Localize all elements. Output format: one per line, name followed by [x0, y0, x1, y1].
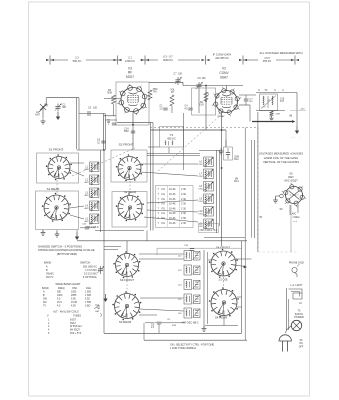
osc bank right rail — [216, 150, 218, 233]
svg-text:2 30: 2 30 — [181, 193, 186, 196]
svg-text:- - -: - - - — [269, 206, 273, 208]
svg-text:TUBES: TUBES — [73, 315, 81, 318]
svg-text:SPRAY: SPRAY — [217, 115, 225, 118]
power wires down — [286, 288, 288, 330]
gang linkage vertical — [257, 128, 259, 249]
svg-text:OSC: OSC — [198, 214, 203, 216]
svg-text:PHONE JACK: PHONE JACK — [289, 262, 305, 265]
svg-text:1 MEG: 1 MEG — [292, 217, 299, 219]
svg-text:DIAL: DIAL — [86, 287, 92, 290]
wires S3 to nb coils — [139, 253, 184, 255]
shield box top right segment — [204, 237, 245, 239]
wire S4F left — [208, 259, 212, 261]
ground left of V5 — [275, 198, 277, 201]
coil data table box — [156, 186, 194, 228]
bus wire AVC — [257, 112, 259, 252]
antenna ground — [42, 119, 44, 122]
gang shaft dashes S1 — [56, 180, 58, 194]
svg-text:10-46: 10-46 — [169, 198, 176, 201]
svg-text:OSC: OSC — [72, 287, 77, 290]
svg-text:2 30: 2 30 — [181, 188, 186, 191]
svg-text:FG: FG — [162, 207, 166, 210]
switch S3 FRONT wafer — [116, 254, 139, 277]
ground under S1 REAR — [42, 230, 44, 233]
svg-text:POWER: POWER — [294, 316, 304, 319]
wires into S3 from left — [104, 246, 121, 248]
svg-text:455 KC: 455 KC — [167, 137, 176, 141]
switch S2 FRONT wafer — [118, 157, 141, 180]
svg-text:S3 REAR: S3 REAR — [119, 320, 131, 324]
wire V3 bottom left — [104, 115, 116, 117]
wire V2 grid bus — [205, 85, 207, 130]
svg-text:FG: FG — [162, 193, 166, 196]
svg-text:FG: FG — [162, 217, 166, 220]
osc coil bank label — [199, 224, 219, 233]
svg-text:VOLTAGES MEASURED +CHASSIS: VOLTAGES MEASURED +CHASSIS — [259, 152, 303, 156]
svg-text:(BOTTOM VIEW): (BOTTOM VIEW) — [57, 252, 77, 256]
switch S2 REAR wafer — [118, 196, 142, 220]
transformer T2 can — [160, 127, 184, 148]
wire lamp to plug — [286, 326, 292, 334]
ground arrow right of T1 — [296, 126, 298, 131]
svg-text:10-46: 10-46 — [169, 217, 176, 220]
gang linkage diagonal a — [72, 148, 135, 176]
capacitor C13 right of V2 — [244, 98, 248, 100]
V5 grid cap pin — [280, 194, 284, 198]
wire top rail between tubes — [149, 81, 183, 83]
svg-text:S2 REAR: S2 REAR — [124, 190, 136, 194]
svg-text:440 455 KC: 440 455 KC — [215, 56, 229, 60]
tube V5 6SQ7 — [286, 187, 303, 204]
svg-text:BAND: BAND — [42, 287, 49, 290]
coil bank right rail — [100, 150, 102, 232]
svg-text:ANT: ANT — [85, 220, 90, 223]
svg-text:+B: +B — [289, 113, 293, 117]
gang shaft dashes S3 — [126, 277, 128, 293]
gang shaft dashes S2 — [129, 181, 131, 194]
switch S1 FRONT wafer — [48, 157, 70, 179]
svg-text:WAVE BAND CHART: WAVE BAND CHART — [56, 282, 81, 286]
svg-text:FG: FG — [162, 188, 166, 191]
svg-text:ANT: ANT — [85, 207, 90, 210]
svg-text:VERTICAL OF THE CHASSIS: VERTICAL OF THE CHASSIS — [263, 160, 299, 164]
svg-text:BAND: BAND — [44, 260, 51, 264]
wire V5 grid left — [276, 195, 280, 197]
svg-text:CONV: CONV — [219, 71, 229, 75]
wires V5 down — [289, 205, 291, 215]
ground under nb bank — [203, 326, 205, 329]
transformer T1 box — [260, 94, 278, 111]
svg-text:6V6 + 5Y3: 6V6 + 5Y3 — [70, 332, 82, 335]
junction dot on bus — [221, 167, 223, 169]
svg-text:S1 REAR: S1 REAR — [47, 187, 61, 191]
svg-text:ALL VOLTAGES MEASURED WITH: ALL VOLTAGES MEASURED WITH — [259, 51, 302, 55]
wire osc rail crossbar — [199, 150, 220, 152]
tube V3 shield box — [116, 82, 149, 125]
wire S2 box bottom — [95, 230, 144, 232]
svg-text:CAP: CAP — [95, 310, 100, 313]
wires S4R to box edge — [237, 296, 242, 298]
svg-text:1 FOR TONE NORMAL: 1 FOR TONE NORMAL — [170, 347, 197, 350]
wire V2 plate up — [226, 86, 228, 92]
svg-text:ON: ON — [299, 343, 303, 345]
antenna sketch right of table — [94, 305, 99, 309]
svg-text:C14: C14 — [124, 128, 129, 130]
svg-text:AVC: AVC — [292, 213, 297, 216]
svg-text:2 30: 2 30 — [181, 222, 186, 225]
phone jack symbol — [292, 267, 297, 272]
oscillator shield box — [192, 88, 216, 115]
switch S1 REAR wafer — [44, 195, 69, 220]
svg-text:10-46: 10-46 — [169, 193, 176, 196]
svg-text:10-46: 10-46 — [169, 222, 176, 225]
nb coil L15 — [184, 294, 192, 304]
svg-text:6.3V: 6.3V — [199, 105, 204, 107]
shield box outer — [244, 128, 246, 341]
svg-text:FM-TV: FM-TV — [46, 276, 54, 279]
svg-text:1-2 OSE: 1-2 OSE — [218, 278, 228, 281]
B+ feed thick wire — [252, 121, 293, 123]
shield box S1 FRONT — [37, 153, 79, 183]
wire down to band switch — [103, 114, 105, 151]
svg-text:2 30: 2 30 — [181, 217, 186, 220]
svg-text:SHOWN AND COUNTERCLOCKWISE: SHOWN AND COUNTERCLOCKWISE IN VALUE — [38, 248, 95, 252]
wire under T1 — [256, 110, 285, 112]
svg-text:6SG7: 6SG7 — [126, 75, 134, 79]
svg-text:R12: R12 — [234, 158, 239, 161]
resistor 47M under T1 — [270, 111, 274, 117]
wire T1 right vertical — [296, 93, 298, 127]
wire V5 diode to avc line — [290, 205, 292, 252]
svg-text:OSC: OSC — [198, 164, 203, 166]
svg-text:RF: RF — [128, 71, 132, 75]
svg-text:OSC COILS HI-C: OSC COILS HI-C — [200, 230, 218, 232]
shield box S2 REAR — [112, 192, 147, 228]
svg-text:IF CONV DATA: IF CONV DATA — [213, 52, 232, 56]
gang linkage dashed line — [150, 127, 258, 129]
wire antenna to coils — [79, 113, 105, 115]
switch S4 REAR wafer — [211, 290, 237, 316]
wire into S3 box — [103, 241, 105, 333]
svg-text:2 30: 2 30 — [181, 203, 186, 206]
wire V2 grid row — [151, 129, 227, 131]
svg-text:FG: FG — [162, 203, 166, 206]
gang linkage diagonal b — [158, 114, 222, 171]
svg-text:50M: 50M — [107, 93, 112, 95]
svg-text:FG: FG — [162, 198, 166, 201]
frequency range dimension line — [50, 59, 68, 61]
nb coil L12 — [184, 251, 192, 261]
svg-text:C16: C16 — [280, 98, 285, 100]
svg-text:S4 REAR: S4 REAR — [215, 316, 227, 320]
svg-text:10-46: 10-46 — [169, 207, 176, 210]
svg-text:6 OPTIONAL: 6 OPTIONAL — [83, 276, 98, 279]
trimmer cap C1 — [57, 104, 59, 107]
svg-text:10-46: 10-46 — [169, 188, 176, 191]
wire vertical right of T2 — [183, 113, 185, 170]
nb coil L14 — [184, 280, 192, 290]
ground stub S1 — [56, 230, 58, 234]
svg-text:4.95: 4.95 — [71, 305, 76, 308]
svg-text:ANT: ANT — [85, 181, 90, 184]
svg-text:10-46: 10-46 — [169, 203, 176, 206]
wire C8 to box bottom — [158, 324, 160, 333]
bus wire third — [251, 140, 253, 238]
svg-text:AVC 6SQ7: AVC 6SQ7 — [284, 178, 298, 182]
trimmer left of S3 — [100, 266, 102, 269]
tube V3 6SG7 — [121, 88, 145, 112]
svg-text:ALT - AM & SW COILS: ALT - AM & SW COILS — [53, 310, 79, 313]
svg-text:C2: C2 — [267, 100, 269, 102]
svg-text:L.A. LIGHT: L.A. LIGHT — [291, 284, 303, 287]
svg-text:1400 KC: 1400 KC — [125, 59, 135, 63]
svg-text:TV: TV — [43, 305, 46, 308]
svg-text:47M: 47M — [276, 114, 280, 116]
svg-text:2 30: 2 30 — [181, 212, 186, 215]
svg-text:FREQ: FREQ — [58, 287, 65, 290]
trimmer C1 ground arrow — [57, 112, 59, 117]
ground arrow to bus — [76, 232, 78, 237]
dimension ticks — [49, 56, 51, 65]
svg-text:50M: 50M — [124, 131, 129, 133]
long chassis bus wire — [77, 240, 247, 242]
wire to B+ feed — [249, 105, 251, 122]
nb bank right rails — [203, 250, 205, 328]
switch S4 FRONT wafer — [211, 251, 236, 276]
wire S3 rear output — [139, 314, 157, 316]
svg-text:( a t . . . . ): ( a t . . . . ) — [291, 136, 301, 139]
avc dashed return line — [258, 251, 298, 253]
svg-text:455 KC: 455 KC — [263, 60, 272, 63]
pilot lamp — [291, 320, 301, 330]
nb coil L13 — [184, 265, 192, 275]
wires S2 to osc coils — [147, 152, 200, 154]
S4 wiper arrow — [234, 265, 245, 267]
svg-text:3000 KC: 3000 KC — [163, 58, 173, 62]
nb coil L16 — [184, 308, 192, 318]
svg-text:10-46: 10-46 — [169, 212, 176, 215]
wire S4R bottom — [223, 316, 225, 326]
wire box corner drop — [146, 231, 148, 241]
svg-text:C41: SELECTIVITY CTRL - FO: C41: SELECTIVITY CTRL - FOR TONE — [170, 343, 214, 346]
wire V2 output down to S4 — [221, 146, 223, 246]
arrow mark left of S3 rear — [105, 294, 107, 299]
wire bus into S3 — [126, 241, 128, 254]
voltage callout 150V — [290, 110, 306, 112]
svg-text:ANT-OSC NB-C: ANT-OSC NB-C — [181, 322, 198, 325]
svg-text:6.3 - 9.7: 6.3 - 9.7 — [163, 54, 173, 58]
svg-text:2.3: 2.3 — [263, 107, 266, 109]
antenna shield box — [46, 97, 79, 99]
svg-text:+150: +150 — [300, 109, 306, 111]
shield box S2 FRONT — [111, 150, 147, 182]
tube V2 6SA7 — [216, 91, 238, 113]
svg-text:OSC: OSC — [198, 189, 203, 191]
svg-text:6SA7: 6SA7 — [220, 75, 228, 79]
svg-text:2 30: 2 30 — [181, 207, 186, 210]
svg-text:2 30: 2 30 — [181, 198, 186, 201]
svg-text:(vol): (vol) — [293, 221, 298, 223]
svg-text:GANGED SWITCH - 3 POSITION: GANGED SWITCH - 3 POSITIONS — [38, 244, 82, 248]
shield box S1 REAR — [36, 191, 79, 230]
svg-text:OSC: OSC — [198, 201, 203, 203]
svg-text:550 KC: 550 KC — [73, 59, 82, 63]
antenna A1 — [40, 104, 46, 110]
wire V2 cathode down — [221, 112, 223, 146]
wire T1 top — [256, 92, 297, 94]
svg-text:V2: V2 — [222, 67, 226, 71]
svg-text:FG: FG — [162, 222, 166, 225]
wire T2 to V3 area — [150, 123, 152, 231]
bus wire B+ — [253, 140, 255, 238]
wire S4F right to bus — [236, 258, 252, 260]
svg-text:C17: C17 — [280, 101, 285, 103]
svg-text:S4 FRONT: S4 FRONT — [216, 245, 231, 249]
AC power plug — [279, 335, 291, 341]
wire T2 down — [168, 147, 170, 153]
svg-text:SWITCH: SWITCH — [80, 260, 90, 264]
svg-text:6 BD: 6 BD — [85, 305, 91, 308]
svg-text:S2 FRONT: S2 FRONT — [119, 142, 134, 146]
output transformer bracket — [289, 289, 303, 299]
wires S1 to antenna coils — [70, 162, 84, 164]
svg-text:ANT: ANT — [85, 194, 90, 197]
coil data table col rule — [167, 186, 169, 227]
svg-text:T1: T1 — [264, 88, 268, 92]
svg-text:HORIZ COIL OF THE GANG: HORIZ COIL OF THE GANG — [264, 156, 299, 160]
svg-text:ANT: ANT — [35, 114, 40, 117]
ground under 47M resistor — [271, 116, 273, 119]
svg-text:OSC: OSC — [198, 176, 203, 178]
junction dots on V2 grid bus — [205, 85, 207, 87]
shield box S3 S4 inner — [156, 248, 158, 255]
capacitor C30 on bus — [224, 147, 233, 160]
wire bottom link — [205, 325, 238, 327]
wire T2 left stub — [148, 146, 160, 148]
svg-text:T2: T2 — [170, 133, 174, 137]
switch S3 REAR wafer — [115, 294, 140, 319]
svg-text:FG: FG — [162, 212, 166, 215]
ground above osc bank — [220, 149, 222, 152]
wire V3 grid left — [104, 98, 121, 100]
svg-text:OFF: OFF — [299, 346, 304, 348]
wires V2 plate to T1 — [239, 94, 256, 96]
svg-text:S1 FRONT: S1 FRONT — [49, 148, 64, 152]
wire V3 cathode down — [132, 112, 134, 125]
svg-text:OSC: OSC — [198, 226, 203, 228]
gang shaft dashes S4 — [223, 277, 225, 289]
wire antenna rail crossbar — [77, 149, 105, 151]
svg-text:R14: R14 — [234, 180, 239, 183]
